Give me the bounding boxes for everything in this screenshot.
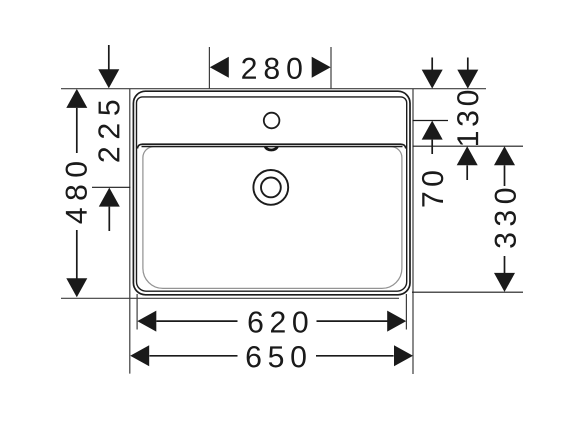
dim 225 text (98, 101, 119, 162)
dim 130 bottom tail (466, 165, 468, 180)
dim 650 arrow right (394, 345, 413, 366)
dim 650 text (247, 346, 306, 367)
dim 620 text (249, 311, 308, 332)
extension line 620 left (136, 294, 138, 330)
dim 480 top arrow (up) (66, 89, 87, 108)
dim 70 text (422, 171, 443, 206)
dim 225 top tail (108, 45, 110, 71)
dim 650 line left (149, 355, 237, 357)
left extension line (650) (129, 89, 131, 374)
dim 70 bottom tail (431, 140, 433, 154)
basin outer contour (133, 91, 410, 295)
dim 480 line upper (76, 108, 78, 153)
dim 70 bottom arrow (up) (422, 121, 443, 140)
bottom datum line (61, 297, 399, 299)
dim 225 top arrow (down) (98, 69, 119, 88)
dim 330 text (495, 189, 516, 248)
dim 650 line right (316, 355, 394, 357)
dim 130 top arrow (down) (457, 70, 478, 89)
dim 480 text (66, 162, 87, 223)
dim 620 arrow right (387, 311, 406, 332)
dim 70 top tail (431, 58, 433, 72)
faucet hole (264, 113, 280, 129)
extension line 280 right (330, 47, 332, 89)
extension line 280 left (208, 47, 210, 89)
tick line 330 bottom (412, 291, 523, 293)
dim 70 top arrow (down) (422, 70, 443, 89)
tick line 70 bottom (413, 120, 448, 122)
overflow slot (265, 146, 277, 150)
dim 130 bottom arrow (up) (457, 146, 478, 165)
dim 330 bottom arrow (down) (494, 273, 515, 292)
dim 480 bottom arrow (down) (66, 278, 87, 297)
deck front edge upper line (137, 144, 405, 148)
dim 650 arrow left (130, 345, 149, 366)
dim 225 bottom arrow (up) (99, 188, 120, 207)
dim 620 arrow left (137, 311, 156, 332)
drain inner circle (261, 178, 281, 198)
bowl outline (143, 147, 402, 289)
dim 280 arrow left (210, 57, 229, 78)
dim 330 line lower (504, 256, 506, 273)
dim 280 text (242, 58, 301, 79)
top datum line (61, 88, 486, 90)
right extension line (650) (412, 89, 414, 374)
dim 480 line lower (76, 230, 78, 279)
dim 130 text (457, 91, 478, 145)
dim 225 bottom tail (108, 207, 110, 231)
dim 330 top arrow (up) (494, 146, 515, 165)
extension line 620 right (405, 294, 407, 330)
dim 620 line right (317, 320, 388, 322)
deck front edge lower line / bowl top (142, 146, 403, 148)
drain outer circle (253, 170, 288, 205)
dim 330 line upper (504, 165, 506, 186)
tick line 225 bottom (92, 186, 130, 188)
dim 620 line left (156, 320, 237, 322)
basin inner contour (137, 97, 407, 291)
dim 130 top tail (467, 58, 469, 72)
dim 280 arrow right (312, 57, 331, 78)
tick line 130 bottom (413, 145, 523, 147)
